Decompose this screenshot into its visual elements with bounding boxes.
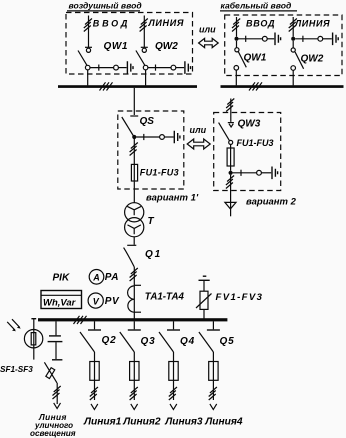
wire: overhead feeder ВВОД	[88, 16, 90, 48]
line mark (3 slashes) on cable busbar	[249, 82, 262, 90]
cable termination after QW1	[127, 61, 133, 74]
junction dot QS	[132, 135, 136, 139]
wire: QW2 (cable) to busbar	[292, 70, 294, 85]
svg-text:ТА1-ТА4: ТА1-ТА4	[145, 291, 185, 302]
arrow: Линия1	[91, 404, 98, 410]
line mark (3 slashes) below Q1	[130, 268, 138, 281]
disconnector QW1 (cable): bottom contact	[234, 66, 239, 71]
line mark (3 slashes) on main busbar	[74, 316, 87, 324]
label FV1-FV3	[216, 292, 264, 303]
feeder Q5: blade	[199, 332, 214, 352]
double arrow (middle)	[187, 139, 210, 149]
svg-text:QW3: QW3	[238, 118, 261, 129]
feeder Q3: wire and fuse	[130, 352, 139, 400]
SECTION: bottom feeders	[0, 319, 243, 438]
svg-text:или: или	[190, 125, 207, 135]
label QW1 (air)	[104, 41, 129, 52]
label Q2	[102, 335, 117, 346]
svg-text:вариант 2: вариант 2	[246, 196, 297, 207]
feeder Q4: wire and fuse	[169, 352, 178, 400]
contact circle on variant 2 chain	[257, 170, 262, 175]
svg-text:Wh,Var: Wh,Var	[43, 298, 77, 309]
double arrow (top)	[199, 38, 219, 47]
svg-text:ЛИНИЯ: ЛИНИЯ	[294, 19, 330, 29]
label: кабельный ввод	[220, 0, 297, 11]
junction dot ЛИНИЯ (cable)	[291, 37, 295, 41]
busbar (cable input)	[221, 85, 344, 88]
feeder Q4: blade	[159, 332, 174, 352]
disconnector QW1 (air): fixed contact	[85, 47, 92, 52]
fuse FU1-FU3 (variant 2)	[227, 144, 234, 170]
wire: air busbar down to QS	[133, 88, 135, 115]
switch QW3: fixed contact	[228, 113, 234, 128]
svg-text:Линия1: Линия1	[83, 416, 122, 427]
node ВВОД (air)	[93, 18, 130, 28]
label: воздушный ввод	[67, 0, 142, 11]
feeder Q2: stub and contact	[88, 321, 101, 330]
line mark (3 slashes) on ВВОД feeder	[84, 19, 92, 32]
line mark (3 slashes) feeder Q2	[90, 387, 98, 400]
SECTION: top-left overhead input	[58, 0, 197, 115]
wire: variant 2 chain	[233, 170, 272, 176]
label Линия4	[204, 417, 243, 428]
line mark (3 slashes) on air busbar	[100, 82, 113, 90]
contact circle on ВВОД chain (cable)	[262, 36, 267, 41]
photo sensor SF1-SF3	[24, 319, 42, 360]
street light switch blade with fuse	[44, 362, 57, 383]
label QW2 (air)	[155, 41, 178, 52]
SECTION: top-right cable input	[199, 0, 344, 90]
junction dot (variant 2)	[229, 171, 233, 175]
svg-text:Q4: Q4	[180, 336, 195, 347]
svg-text:вариант 1': вариант 1'	[146, 193, 199, 204]
cable termination after QS	[174, 131, 180, 144]
label Линия1	[83, 416, 122, 427]
contact circle on QS chain	[160, 135, 165, 140]
SECTION: meters	[41, 270, 120, 309]
label PV	[105, 296, 120, 307]
svg-text:Q3: Q3	[141, 336, 156, 347]
svg-text:QS: QS	[140, 116, 155, 127]
wire: overhead feeder ЛИНИЯ	[143, 16, 145, 48]
label Q1	[145, 249, 162, 260]
label QS	[140, 116, 155, 127]
disconnector QW2 (air): fixed contact	[141, 47, 148, 52]
label SF1-SF3	[0, 365, 33, 374]
wire: variant 2 down	[230, 175, 232, 217]
disconnector QW1 (cable): pivot	[235, 41, 239, 52]
feeder Q2: wire and fuse	[90, 352, 99, 400]
line mark (3 slashes) above variant 2	[226, 99, 234, 112]
wire: street light feeder	[56, 383, 58, 404]
svg-text:Q2: Q2	[102, 335, 117, 346]
wire: QW1 (cable) to busbar	[235, 70, 237, 85]
label QW3	[238, 118, 261, 129]
feeder Q4: stub and contact	[167, 321, 180, 330]
svg-text:Q5: Q5	[220, 336, 235, 347]
svg-text:QW2: QW2	[155, 41, 178, 52]
svg-text:FU1-FU3: FU1-FU3	[140, 167, 179, 177]
label T	[148, 216, 155, 227]
ammeter PA	[89, 270, 104, 285]
label TA1-TA4	[145, 291, 185, 302]
surge arrester FV1-FV3	[196, 281, 212, 319]
label Q3	[141, 336, 156, 347]
wire: QW2 to busbar	[145, 70, 147, 86]
energy meter Wh,Var	[41, 291, 82, 309]
label Q5	[220, 336, 235, 347]
wire: QW2 chain	[148, 65, 184, 71]
feeder Q5: stub and contact	[207, 321, 220, 330]
wire: cable feeder ВВОД	[236, 17, 238, 37]
wire: QW1 chain	[90, 65, 127, 71]
line mark (3 slashes) street light feeder	[53, 386, 61, 399]
disconnector QW1 (air): blade	[78, 51, 90, 70]
wire: QS chain	[136, 134, 173, 140]
line mark (3 slashes) below QS	[130, 143, 138, 156]
label Q4	[180, 336, 195, 347]
node ЛИНИЯ (cable)	[294, 19, 330, 29]
svg-text:QW1: QW1	[244, 53, 267, 64]
label: вариант 1	[146, 193, 199, 204]
switch QW3: blade	[219, 123, 233, 145]
svg-text:Линия3: Линия3	[164, 417, 203, 428]
wire: QW1 to busbar	[87, 70, 89, 86]
wire: Q1 down to TA	[133, 267, 135, 285]
svg-text:кабельный ввод: кабельный ввод	[221, 0, 292, 10]
fuse FU1-FU3 (variant 1)	[131, 164, 137, 181]
label FU1-FU3 (variant 1)	[140, 167, 179, 177]
line mark (3 slashes) on ЛИНИЯ feeder	[140, 19, 148, 32]
svg-text:FU1-FU3: FU1-FU3	[237, 138, 274, 148]
contact circle on QW1 chain	[114, 65, 119, 70]
open arrow (variant 2 outgoing)	[225, 202, 236, 209]
disconnector QW2 (cable): blade	[295, 52, 304, 69]
disconnector QW2 (air): blade	[136, 51, 148, 70]
svg-text:QW2: QW2	[301, 54, 324, 65]
svg-text:T: T	[148, 216, 155, 227]
arrow: street light line	[54, 403, 61, 409]
feeder Q3: stub and contact	[128, 321, 141, 330]
label: Линия уличного освещения	[30, 412, 76, 438]
line mark (3 slashes) feeder Q3	[130, 387, 138, 400]
switch QS: fixed contact tick	[130, 115, 138, 117]
label QW1 (cable)	[244, 53, 267, 64]
feeder Q5: wire and fuse	[209, 352, 218, 400]
wire: cable feeder ЛИНИЯ	[292, 17, 294, 37]
line mark (3 slashes) feeder Q5	[209, 387, 217, 400]
svg-text:освещения: освещения	[30, 429, 76, 438]
surge arrester FV1-FV3: ground (up)	[199, 276, 210, 280]
node ВВОД (cable)	[246, 19, 275, 29]
label: вариант 2	[246, 196, 297, 207]
svg-text:PV: PV	[105, 296, 120, 307]
svg-text:Линия4: Линия4	[204, 417, 243, 428]
dashed enclosure: air input box	[66, 13, 193, 75]
line mark (3 slashes) feeder Q4	[169, 387, 177, 400]
label PA	[105, 272, 119, 283]
transformer T	[125, 203, 144, 237]
contact circle on ЛИНИЯ chain (cable)	[318, 36, 323, 41]
line mark (3 slashes) on cable ВВОД	[232, 19, 240, 32]
svg-text:или: или	[199, 25, 216, 35]
svg-text:FV1-FV3: FV1-FV3	[216, 292, 264, 303]
dashed enclosure: variant 2 box	[214, 113, 281, 191]
svg-text:SF1-SF3: SF1-SF3	[0, 365, 33, 374]
dashed enclosure: variant 1 box	[118, 111, 184, 189]
svg-text:воздушный ввод: воздушный ввод	[69, 0, 142, 10]
contactor contact (street light)	[48, 321, 63, 359]
wire: variant 1 to transformer	[133, 189, 135, 203]
svg-text:ЛИНИЯ: ЛИНИЯ	[148, 18, 185, 28]
svg-text:Линия2: Линия2	[122, 417, 161, 428]
dashed enclosure: cable input box	[225, 15, 342, 76]
disconnector QW1 (cable): blade	[238, 52, 246, 68]
breaker Q1: blade	[124, 248, 135, 267]
cable termination (variant 2)	[272, 167, 278, 180]
arrow: Линия3	[170, 404, 177, 410]
svg-text:PIK: PIK	[53, 272, 70, 283]
breaker Q1: fixed contact tick	[127, 244, 136, 246]
arrow: Линия4	[210, 404, 217, 410]
busbar (air input)	[58, 85, 197, 88]
main busbar	[38, 318, 227, 321]
switch QS: blade	[122, 117, 134, 137]
label FU1-FU3 (variant 2)	[237, 138, 274, 148]
junction dot ВВОД (cable)	[235, 37, 239, 41]
wire: fuse to box edge	[133, 181, 135, 189]
label PIK	[53, 272, 70, 283]
wire: cable busbar down to variant 2	[230, 99, 232, 113]
label: или (top)	[199, 25, 216, 35]
svg-text:QW1: QW1	[104, 41, 129, 52]
cable termination ВВОД (cable)	[275, 33, 281, 46]
feeder Q2: blade	[80, 332, 95, 352]
photo sensor SF1-SF3: light arrows	[7, 319, 21, 331]
SECTION: main column	[38, 189, 263, 324]
wire: QS down to fuse	[133, 139, 135, 164]
label Линия2	[122, 417, 161, 428]
SECTION: middle variant boxes	[118, 99, 297, 217]
arrow: Линия2	[131, 404, 138, 410]
label QW2 (cable)	[301, 54, 324, 65]
wire: ВВОД chain (cable)	[239, 36, 275, 42]
svg-text:A: A	[92, 272, 100, 282]
svg-text:V: V	[93, 296, 100, 306]
voltmeter PV	[88, 293, 103, 308]
cable termination after QW2	[185, 61, 191, 74]
svg-text:ВВОД: ВВОД	[246, 19, 275, 29]
line mark (3 slashes) on cable ЛИНИЯ	[289, 19, 297, 32]
feeder Q3: blade	[120, 332, 135, 352]
svg-text:PA: PA	[105, 272, 119, 283]
cable termination ЛИНИЯ (cable)	[333, 33, 339, 46]
disconnector QW2 (cable): bottom contact	[291, 66, 296, 71]
line mark (3 slashes) below variant 2 dot	[226, 176, 234, 189]
node ЛИНИЯ (air)	[148, 18, 185, 28]
svg-text:Q1: Q1	[145, 249, 162, 260]
wire: transformer to Q1	[133, 237, 135, 245]
label: или (middle)	[190, 125, 207, 135]
svg-text:ВВОД: ВВОД	[93, 18, 130, 28]
current transformers TA1-TA4	[128, 285, 141, 318]
label Линия3	[164, 417, 203, 428]
wire: ЛИНИЯ chain (cable)	[295, 36, 332, 42]
disconnector QW2 (cable): pivot	[291, 41, 295, 52]
contact circle on QW2 chain	[171, 65, 176, 70]
